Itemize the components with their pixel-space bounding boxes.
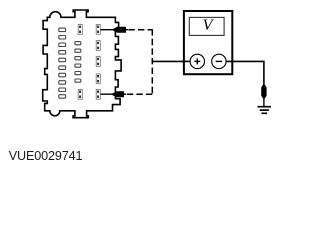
terminal pin T7 (col3 row5, probed) xyxy=(96,89,100,99)
terminal pin T1 (col2 top, 2-cell) xyxy=(78,25,82,35)
voltmeter V1 body xyxy=(184,11,232,74)
terminal pin T4 (col3 row2) xyxy=(96,41,100,51)
terminal pin T3 (col3 row1, probed) xyxy=(96,25,100,35)
wire W2: - terminal to ground drop xyxy=(226,61,264,86)
probe arrow A1 (top) xyxy=(112,27,126,33)
probe arrow A2 (bottom) xyxy=(111,91,124,97)
voltmeter + terminal xyxy=(190,54,204,68)
terminal pin T5 (col3 row3) xyxy=(96,57,100,67)
wire W1 inside meter to + terminal xyxy=(184,60,191,62)
wire W1: dashed box to voltmeter + xyxy=(152,60,191,62)
connector pins column 2 (cavity row, middle) xyxy=(75,42,81,83)
dashed measurement box xyxy=(127,29,153,94)
probe lead wire to pin T3 xyxy=(101,29,129,31)
voltmeter V label xyxy=(203,17,215,34)
ground G1 xyxy=(257,107,271,114)
figure id label xyxy=(9,149,83,163)
terminal pin T2 (col2 bottom, 2-cell) xyxy=(78,89,82,99)
probe lead wire to pin T7 xyxy=(101,93,127,95)
voltmeter display window xyxy=(189,17,224,35)
connector C1 body outline xyxy=(43,10,121,118)
connector pins column 1 (cavity row, left) xyxy=(59,28,66,98)
wire W3: probe to ground xyxy=(263,98,265,107)
terminal pin T6 (col3 row4) xyxy=(96,74,100,84)
probe body on ground lead xyxy=(261,85,266,98)
voltmeter - terminal xyxy=(212,54,226,68)
